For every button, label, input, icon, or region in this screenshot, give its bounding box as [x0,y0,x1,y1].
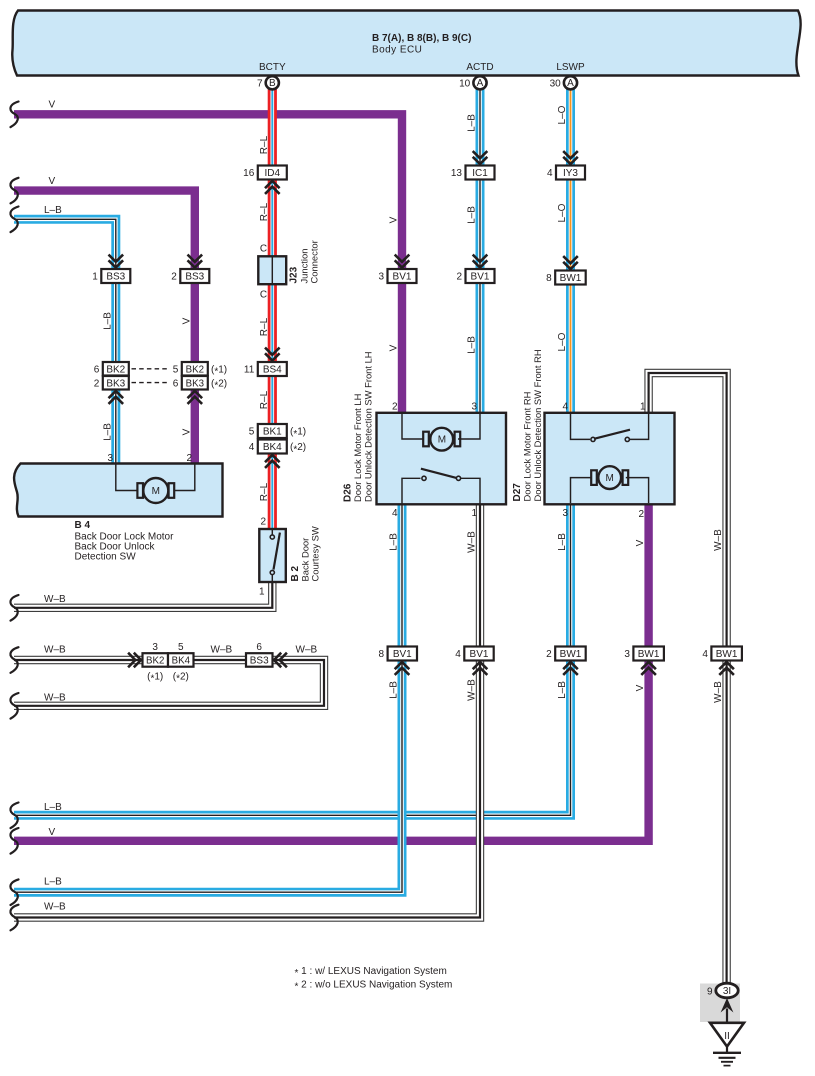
wire break L-B bus 2 [10,879,18,905]
svg-text:3: 3 [152,642,158,653]
svg-text:L–B: L–B [557,681,568,699]
svg-text:BV1: BV1 [470,649,489,660]
svg-text:2: 2 [456,272,462,283]
connector 8 BW1 [546,271,586,285]
svg-text:LSWP: LSWP [556,62,585,73]
svg-text:BS3: BS3 [185,272,204,283]
wire break V feed 2 [10,178,18,204]
svg-text:BW1: BW1 [560,273,582,284]
svg-text:30: 30 [550,79,562,90]
arrow up below BK2/BK3 left [109,391,124,404]
svg-text:L–B: L–B [44,205,62,216]
arrow down above IC1 [473,151,488,164]
svg-text:BK4: BK4 [263,442,282,453]
svg-text:4: 4 [547,168,553,179]
svg-text:16: 16 [243,168,255,179]
svg-text:6: 6 [256,642,262,653]
wire L-B ACTD pin 10A to D26 pin 3 [479,88,481,414]
svg-text:L–B: L–B [44,802,62,813]
arrow down above IY3 [563,151,578,164]
svg-text:Door Lock Motor Front LH: Door Lock Motor Front LH [352,394,363,502]
connector 8 BV1 [379,647,417,661]
svg-text:C: C [260,244,267,255]
pin 30 circle A [550,76,578,89]
svg-text:2: 2 [546,649,552,660]
svg-text:L–B: L–B [467,206,478,224]
svg-text:6: 6 [94,364,100,375]
connector 2 BK3 left [94,376,129,390]
svg-text:L–B: L–B [102,423,113,441]
svg-text:2: 2 [260,517,266,528]
arrow up below BK4 [265,455,280,468]
svg-text:R–L: R–L [259,317,270,336]
ground shade box [700,984,740,1023]
svg-text:BCTY: BCTY [259,62,286,73]
svg-text:BW1: BW1 [560,649,582,660]
svg-text:2: 2 [94,378,100,389]
svg-text:Courtesy SW: Courtesy SW [310,526,321,581]
svg-text:4: 4 [455,649,461,660]
svg-text:BK1: BK1 [263,427,282,438]
svg-text:IY3: IY3 [563,168,578,179]
svg-text:BV1: BV1 [393,272,412,283]
svg-text:ID4: ID4 [265,168,281,179]
svg-text:4: 4 [562,402,568,413]
ground stub [726,1047,728,1053]
connector 6 BS3 [246,642,273,667]
svg-text:4: 4 [392,508,398,519]
arrow right into BK2 [128,653,141,668]
svg-text:3: 3 [562,508,568,519]
back door courtesy switch B2 [259,526,320,582]
wire break V feed 1 [10,102,18,128]
svg-text:V: V [49,827,56,838]
connector 3 BK2 (*1) [143,642,169,685]
svg-text:L–B: L–B [389,533,400,551]
svg-text:Door Unlock Detection SW Front: Door Unlock Detection SW Front RH [532,349,543,501]
svg-text:2: 2 [638,509,644,520]
pin 10 circle A [459,76,487,89]
svg-text:1: 1 [471,508,477,519]
wire break W-B BK row [10,647,18,673]
svg-text:Connector: Connector [309,240,320,283]
svg-text:B 4: B 4 [75,520,91,531]
arrow up below ID4 [265,181,280,194]
svg-text:Door Lock Motor Front RH: Door Lock Motor Front RH [522,392,533,502]
svg-text:W–B: W–B [44,645,66,656]
connector 6 BK2 left [94,362,129,376]
connector 4 BK4 (*2) [249,440,306,456]
svg-text:1: 1 [92,272,98,283]
ground arrow [721,998,734,1013]
svg-text:8: 8 [379,649,385,660]
svg-text:L–O: L–O [557,332,568,351]
wire W-B left feed to BK2/BK4 [14,659,143,661]
wire break V bus [10,828,18,854]
arrow down above 2 BS3 [188,255,203,268]
svg-text:3: 3 [471,402,477,413]
svg-text:L–B: L–B [467,114,478,132]
svg-text:L–O: L–O [557,203,568,222]
svg-text:4: 4 [249,442,255,453]
arrow down above 2 BV1 [473,255,488,268]
connector 5 BK4 (*2) [168,642,194,685]
pin 7 circle B [257,76,279,89]
wire W-B B2 pin 1 to left edge [14,582,272,608]
svg-text:BK2: BK2 [186,364,204,375]
svg-text:BS3: BS3 [250,656,269,667]
connector 4 IY3 [547,166,585,180]
svg-text:2: 2 [171,272,177,283]
svg-text:IC1: IC1 [472,168,488,179]
wire L-O LSWP pin 30A to D27 pin 4 [570,88,572,414]
arrow down above BS4 [265,348,280,361]
svg-text:M: M [152,486,160,497]
wire L-B D27 pin 3 through 2 BW1 to left edge [14,504,571,816]
connector 5 BK2 right (*1) [173,362,227,378]
svg-text:W–B: W–B [713,681,724,703]
svg-text:C: C [260,290,267,301]
wire W-B BS3 loop to left edge [14,660,324,706]
connector 4 BV1 [455,647,493,661]
svg-text:B 7(A), B 8(B), B 9(C): B 7(A), B 8(B), B 9(C) [372,33,471,44]
wire V left feed to 2 BS3, BK2, B4 pin 2 [14,191,195,465]
svg-text:4: 4 [702,649,708,660]
wire V left feed through 3 BW1 to D27 pin 2 [14,504,649,841]
ground symbol bars [713,1053,741,1066]
arrow down above 8 BW1 [563,256,578,269]
back door lock motor B4 [14,464,222,517]
svg-text:3: 3 [378,272,384,283]
svg-text:V: V [389,344,400,351]
door lock motor front RH D27 [512,349,675,504]
connector 6 BK3 right (*2) [173,376,227,392]
svg-text:L–B: L–B [389,681,400,699]
svg-text:1: 1 [259,587,265,598]
svg-text:3I: 3I [723,986,731,997]
svg-text:1: 1 [640,402,646,413]
svg-text:V: V [635,684,646,691]
svg-text:W–B: W–B [467,531,478,553]
dashed link BK3 row [132,382,171,384]
wire W-B D26 pin 1 through 4 BV1 to left edge [14,504,480,918]
svg-text:BW1: BW1 [638,649,660,660]
connector 2 BW1 [546,647,586,661]
svg-text:L–B: L–B [557,533,568,551]
svg-text:V: V [49,100,56,111]
arrow left into BS3 [274,653,287,668]
svg-text:8: 8 [546,273,552,284]
wire W-B D27 pin 1 through 4 BW1 to ground [649,373,727,984]
svg-text:V: V [181,428,192,435]
svg-text:W–B: W–B [467,679,478,701]
svg-text:M: M [606,473,614,484]
arrow up below BK2/BK3 right [188,391,203,404]
svg-text:Body ECU: Body ECU [372,45,422,56]
svg-text:BK2: BK2 [146,656,164,667]
svg-text:BV1: BV1 [471,272,490,283]
svg-text:BS3: BS3 [106,272,125,283]
dashed link BK2 row [132,368,171,370]
svg-text:11: 11 [244,365,255,376]
svg-text:W–B: W–B [713,529,724,551]
svg-text:II: II [724,1031,730,1042]
connector 3 BW1 [624,647,664,661]
connector 16 ID4 [243,166,287,180]
svg-text:L–B: L–B [44,877,62,888]
svg-text:A: A [567,78,574,89]
connector 11 BS4 [244,362,287,376]
connector 1 BS3 [92,269,130,283]
svg-text:W–B: W–B [44,902,66,913]
connector 13 IC1 [451,166,495,180]
svg-text:W–B: W–B [296,645,318,656]
svg-text:2: 2 [392,402,398,413]
connector 2 BS3 [171,269,209,283]
svg-text:BK3: BK3 [106,378,125,389]
svg-text:R–L: R–L [259,482,270,501]
svg-text:6: 6 [173,378,179,389]
svg-text:7: 7 [257,79,263,90]
wire W-B BK4 to BS3 [194,659,246,661]
svg-text:BK3: BK3 [186,378,204,389]
ground lead [726,1009,728,1023]
svg-text:W–B: W–B [44,594,66,605]
ground point 9 oval 3I [707,983,738,998]
wire break L-B bus 1 [10,803,18,829]
arrow up below 8 BV1 [395,662,410,675]
svg-text:Detection SW: Detection SW [75,552,137,563]
svg-text:5: 5 [173,364,179,375]
svg-text:9: 9 [707,987,713,998]
wire break L-B feed [10,207,18,233]
svg-text:5: 5 [178,642,184,653]
connector 2 BV1 [456,269,494,283]
wire break W-B bus [10,905,18,931]
wire V Body-ECU left feed to 3 BV1 and D26 pin 2 [14,114,402,413]
wire L-B D26 pin 4 through 8 BV1 to left edge [14,504,402,893]
wire L-B left feed to 1 BS3, BK2, B4 pin 3 [14,219,116,464]
svg-text:W–B: W–B [211,645,233,656]
arrow down above 3 BV1 [395,255,410,268]
arrow up below 4 BW1 [719,662,734,675]
svg-text:A: A [477,78,484,89]
svg-text:R–L: R–L [259,390,270,409]
svg-text:V: V [181,317,192,324]
svg-text:R–L: R–L [259,135,270,154]
wire R-L BCTY pin 7B to B2 [271,88,273,529]
svg-text:5: 5 [249,427,255,438]
svg-text:V: V [49,176,56,187]
svg-text:3: 3 [624,649,630,660]
svg-text:R–L: R–L [259,202,270,221]
svg-text:V: V [635,539,646,546]
svg-text:ACTD: ACTD [466,62,493,73]
Body ECU band B7(A) B8(B) B9(C) [12,11,800,76]
svg-text:Door Unlock Detection SW Front: Door Unlock Detection SW Front LH [363,351,374,502]
svg-text:L–O: L–O [557,105,568,124]
junction connector J23 [258,240,319,284]
svg-text:10: 10 [459,79,471,90]
door lock motor front LH D26 [343,351,507,504]
svg-text:M: M [438,435,446,446]
connector 3 BV1 [378,269,416,283]
arrow up below 2 BW1 [563,662,578,675]
svg-text:BS4: BS4 [263,365,282,376]
svg-text:L–B: L–B [102,312,113,330]
svg-text:BK2: BK2 [106,364,125,375]
svg-text:L–B: L–B [467,336,478,354]
svg-text:BW1: BW1 [716,649,738,660]
svg-text:W–B: W–B [44,693,66,704]
svg-text:13: 13 [451,168,463,179]
arrow up below 4 BV1 [473,662,488,675]
arrow down above 1 BS3 [109,255,124,268]
wire break W-B loop [10,693,18,719]
wire break W-B B2 run [10,595,18,621]
svg-text:B: B [269,78,276,89]
svg-text:BK4: BK4 [172,656,191,667]
svg-text:V: V [389,216,400,223]
connector 4 BW1 [702,647,742,661]
ground triangle II [710,1023,744,1047]
svg-text:BV1: BV1 [393,649,412,660]
arrow up below 3 BW1 [641,662,656,675]
connector 5 BK1 (*1) [249,424,306,440]
